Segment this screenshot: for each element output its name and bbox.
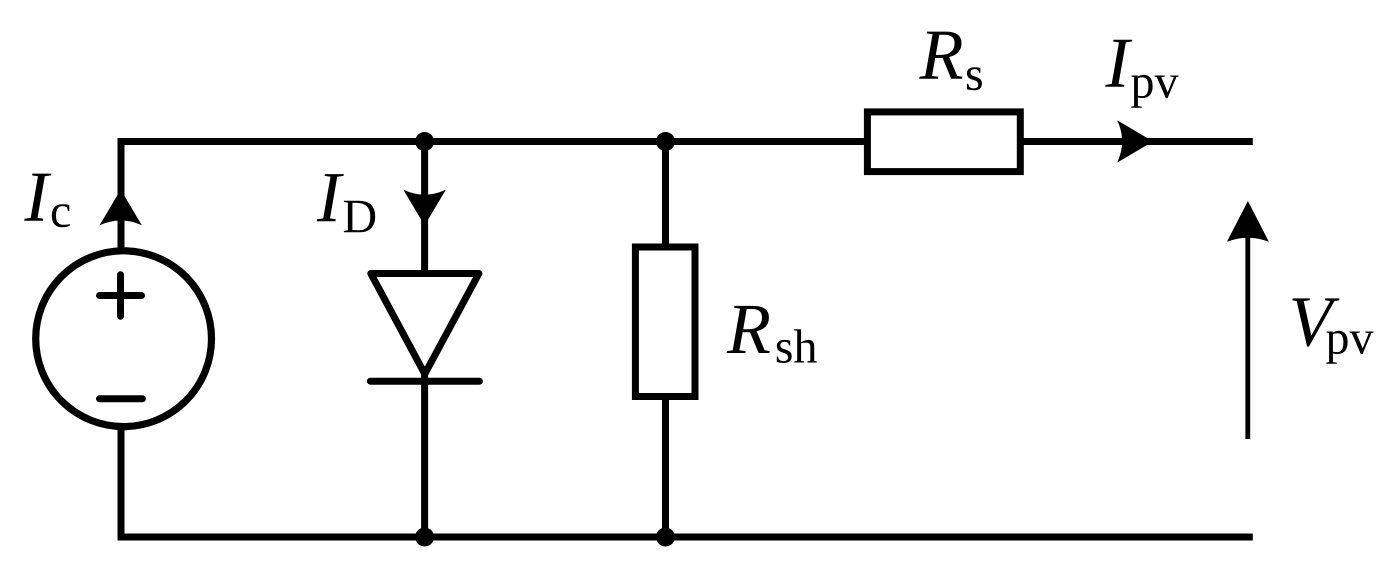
Rsh label (727, 306, 770, 353)
current source Ic circle (36, 251, 212, 427)
Vpv label (1292, 298, 1339, 346)
diode D cathode bar (370, 378, 479, 385)
resistor Rsh body (635, 247, 695, 397)
Rs label (919, 32, 962, 79)
node A: top diode junction dot (415, 132, 434, 151)
resistor Rs body (867, 112, 1020, 172)
Ic label (24, 174, 51, 221)
minus sign inside source (100, 395, 143, 402)
ID current arrowhead (down) on diode wire (403, 190, 445, 226)
Ipv label (1105, 40, 1132, 87)
wire diode branch top (421, 138, 428, 277)
wire top-left: from Rs left to top-left corner down to current source top (121, 142, 864, 253)
wire Rsh branch top (662, 138, 669, 248)
Vpv arrowhead (up) (1227, 201, 1269, 242)
Ipv current arrowhead (right) on output wire (1117, 120, 1153, 162)
plus sign inside source (100, 275, 142, 317)
node D: bottom Rsh junction dot (656, 528, 675, 547)
wire Rsh branch bottom (662, 396, 669, 537)
wire bottom: from current source bottom to corner and across (121, 424, 1253, 537)
Ic current arrowhead (up) on left wire (100, 190, 142, 226)
wire top-right: from Rs right to open end (1021, 138, 1253, 145)
ID label (317, 174, 344, 221)
wire diode branch bottom (421, 374, 428, 537)
Vpv arrow shaft (1245, 224, 1250, 439)
node B: top Rsh junction dot (656, 132, 675, 151)
diode D anode triangle (371, 274, 479, 375)
node C: bottom diode junction dot (415, 528, 434, 547)
